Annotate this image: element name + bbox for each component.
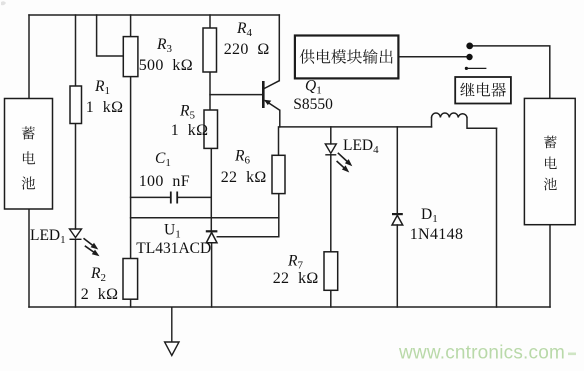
op-amp U1 TL431 symbol <box>206 231 218 243</box>
svg-text:22 kΩ: 22 kΩ <box>221 169 267 186</box>
resistor R1 <box>70 86 82 124</box>
resistor R4 <box>203 28 217 72</box>
wire R5 bottom to U1 cathode <box>210 148 212 230</box>
node relay contact lower dot <box>466 54 472 60</box>
wire LED1 to bottom rail <box>75 240 77 308</box>
inductor relay coil <box>432 113 468 117</box>
wire Q1 collector drop from top rail <box>278 15 280 81</box>
wire LED4 to R7 <box>330 155 332 252</box>
box 供电模块输出 <box>295 36 399 79</box>
svg-text:500 kΩ: 500 kΩ <box>139 57 193 74</box>
wire base of Q1 <box>210 94 263 96</box>
wire R4 to R5 <box>209 72 211 110</box>
svg-text:www.cntronics.com: www.cntronics.com <box>398 343 565 364</box>
wire right battery bottom lead <box>549 225 551 307</box>
wire C1 right lead <box>178 196 212 198</box>
wire supply box to relay contact <box>398 56 466 58</box>
wire coil right lead <box>467 118 497 129</box>
svg-text:S8550: S8550 <box>293 96 333 113</box>
wire U1 anode to bottom rail <box>211 243 213 307</box>
wire R1 top lead <box>75 15 77 86</box>
wire R3 top lead <box>130 15 132 37</box>
svg-text:2 kΩ: 2 kΩ <box>81 286 119 303</box>
wire jog to R3 left side <box>97 15 124 56</box>
wire R3 bottom to R2 top <box>130 77 132 259</box>
label left battery 蓄电池 <box>22 126 35 189</box>
battery BT2 right 蓄电池 box <box>524 98 575 224</box>
svg-text:1 kΩ: 1 kΩ <box>171 122 209 139</box>
resistor R3 <box>123 37 138 77</box>
transistor Q1 S8550 <box>263 81 280 111</box>
node relay contact upper dot <box>466 43 473 50</box>
svg-text:1 kΩ: 1 kΩ <box>86 99 124 116</box>
scan artifact top-left <box>1 1 6 5</box>
wire R7 bottom lead <box>330 290 332 307</box>
wire LED4 top lead <box>330 127 332 144</box>
label right battery 蓄电池 <box>544 136 557 191</box>
wire node long feedback wire <box>131 217 279 219</box>
label 继电器 <box>460 82 506 96</box>
wire R2 bottom lead <box>130 299 132 307</box>
svg-text:220 Ω: 220 Ω <box>224 41 270 58</box>
resistor R7 <box>324 252 338 290</box>
wire D1 bottom lead <box>396 225 398 307</box>
wire R6 top lead <box>278 127 280 155</box>
resistor R6 <box>272 155 285 193</box>
svg-text:100 nF: 100 nF <box>139 173 190 190</box>
LED LED4 symbol <box>325 144 336 155</box>
node relay lever <box>465 67 468 70</box>
svg-text:TL431ACD: TL431ACD <box>136 240 211 257</box>
wire R4 top lead <box>209 15 211 28</box>
LED LED1 symbol <box>70 229 82 239</box>
battery BT1 left 蓄电池 box <box>5 99 53 210</box>
wire top rail <box>29 14 279 16</box>
wire D1 top lead <box>396 127 398 214</box>
wire U1 ref to R6 bottom <box>217 194 278 237</box>
wire left battery bottom lead <box>28 209 30 307</box>
wire C1 left lead <box>131 196 171 198</box>
wire coil right drop to rail <box>496 128 498 307</box>
resistor R2 <box>123 259 138 300</box>
wire emitter node horizontal <box>280 126 432 128</box>
resistor R5 <box>204 110 218 148</box>
wire Q1 emitter down <box>279 110 281 127</box>
box 继电器 <box>455 77 511 104</box>
label 供电模块输出 <box>300 49 393 64</box>
wire relay contact to right battery <box>473 46 550 99</box>
wire R1 to LED1 <box>75 124 77 230</box>
wire left battery top lead <box>28 15 30 99</box>
wire bottom rail <box>29 306 550 308</box>
capacitor C1 plates <box>171 192 177 204</box>
svg-text:22 kΩ: 22 kΩ <box>273 270 319 287</box>
svg-text:1N4148: 1N4148 <box>410 226 464 243</box>
diode D1 symbol <box>392 214 403 225</box>
ground <box>165 307 179 356</box>
wire coil left lead <box>431 118 433 127</box>
